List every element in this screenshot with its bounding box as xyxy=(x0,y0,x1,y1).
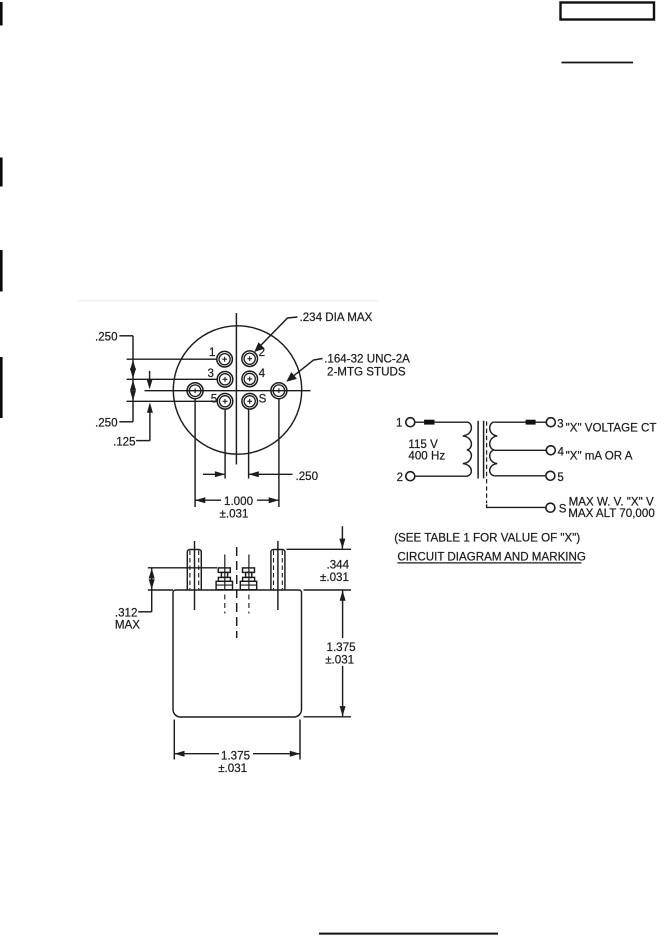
terminal 4 xyxy=(242,371,258,387)
case outline circle (top view) xyxy=(173,326,301,454)
arrowhead up row1 xyxy=(130,360,136,370)
case body (side view) xyxy=(173,590,302,717)
arrowhead left 1.375 bottom xyxy=(174,751,184,757)
connector .250 top xyxy=(119,335,133,337)
svg-text:.164-32 UNC-2A: .164-32 UNC-2A xyxy=(324,353,410,366)
svg-text:"X" mA OR A: "X" mA OR A xyxy=(566,449,633,462)
svg-text:±.031: ±.031 xyxy=(218,762,247,775)
leader .164-32 xyxy=(288,359,323,381)
solder terminal left (side view) xyxy=(216,555,232,614)
svg-text:±.031: ±.031 xyxy=(320,571,349,584)
arrowhead down .312 xyxy=(149,579,155,589)
header rule xyxy=(562,62,634,64)
svg-text:.250: .250 xyxy=(296,470,319,483)
svg-text:1.375: 1.375 xyxy=(221,749,250,762)
extension line stud left down xyxy=(194,400,196,508)
svg-text:.250: .250 xyxy=(95,330,118,343)
title box top-right xyxy=(561,3,655,20)
terminal 3 xyxy=(217,372,233,388)
arrowhead down at centerline xyxy=(147,379,153,389)
extension line stud top right xyxy=(287,548,352,550)
extension line row 1 xyxy=(127,358,217,360)
shield wire to S xyxy=(487,504,546,507)
mounting stud right (top view) xyxy=(271,383,287,399)
extension line cap top xyxy=(148,567,217,569)
extension line row 5 xyxy=(127,400,218,402)
stud left (side view) xyxy=(187,541,201,610)
arrowhead leader .164 xyxy=(286,372,297,382)
svg-text:3: 3 xyxy=(208,367,214,380)
dimension line .250 vertical xyxy=(132,336,134,422)
dimension line .250 bottom left part xyxy=(203,473,225,475)
svg-text:2-MTG STUDS: 2-MTG STUDS xyxy=(327,365,406,378)
polarity mark secondary xyxy=(526,420,536,425)
wire secondary to terminal 3 xyxy=(494,421,546,423)
arrowhead up row3b xyxy=(130,380,136,390)
extension line body bottom right xyxy=(304,716,352,718)
core line 2 xyxy=(483,421,485,479)
extension line body bottom leftend xyxy=(173,720,175,760)
svg-text:2: 2 xyxy=(397,471,403,484)
arrowhead up 1.375 xyxy=(340,591,346,601)
svg-text:4: 4 xyxy=(558,446,565,459)
core line 1 xyxy=(477,421,479,479)
svg-text:"X" VOLTAGE CT: "X" VOLTAGE CT xyxy=(566,422,657,435)
dimension line .125 lower xyxy=(149,411,151,441)
arrowhead right 1.375 bottom xyxy=(290,751,300,757)
title underline xyxy=(397,562,581,564)
extension line terminal S down xyxy=(248,410,250,479)
connector .312 xyxy=(138,611,152,613)
arrowhead down .344 xyxy=(339,539,345,549)
svg-text:.312: .312 xyxy=(115,606,138,619)
scan smudge xyxy=(78,300,378,302)
terminal S xyxy=(242,394,258,410)
svg-text:MAX: MAX xyxy=(115,619,140,632)
extension line body top right xyxy=(304,589,352,591)
leader .234 DIA MAX xyxy=(256,317,298,350)
change bar 4 xyxy=(0,357,3,418)
terminal 5 xyxy=(217,394,233,410)
arrowhead down row5 xyxy=(130,390,136,400)
arrowhead left 1.000 xyxy=(195,497,205,503)
dimension line .344 upper xyxy=(341,526,343,549)
extension line stud right down xyxy=(278,400,280,508)
extension line row 3 xyxy=(127,378,218,380)
terminal S circle (schematic) xyxy=(546,503,555,512)
dimension line 1.375 right lower xyxy=(342,666,344,716)
terminal 3 circle (schematic) xyxy=(546,418,555,427)
svg-text:S: S xyxy=(259,392,267,405)
connector .125 xyxy=(136,440,150,442)
dimension line 1.375 bottom left part xyxy=(174,753,219,755)
svg-text:1.375: 1.375 xyxy=(327,641,356,654)
terminal 5 circle (schematic) xyxy=(546,471,555,480)
svg-text:5: 5 xyxy=(557,471,563,484)
secondary winding xyxy=(490,422,498,476)
svg-text:1: 1 xyxy=(396,417,402,430)
mounting stud left (top view) xyxy=(187,383,203,399)
terminal 2 circle (schematic) xyxy=(406,472,415,481)
dimension line 1.000 left part xyxy=(195,499,221,501)
wire secondary to terminal 5 xyxy=(494,475,546,477)
svg-text:1.000: 1.000 xyxy=(224,495,253,508)
arrowhead up at row5 xyxy=(147,403,153,413)
terminal 2 xyxy=(242,351,258,367)
svg-text:3: 3 xyxy=(557,418,563,431)
svg-text:400 Hz: 400 Hz xyxy=(408,450,445,463)
arrowhead right at terminal5 xyxy=(215,471,225,477)
svg-text:.344: .344 xyxy=(327,559,350,572)
terminal 4 circle (schematic) xyxy=(546,446,555,455)
svg-text:MAX ALT 70,000: MAX ALT 70,000 xyxy=(568,507,655,520)
arrowhead up .312 xyxy=(149,568,155,578)
vertical centerline xyxy=(235,313,237,465)
dimension line 1.375 bottom right part xyxy=(253,753,300,755)
svg-text:.125: .125 xyxy=(113,435,136,448)
svg-text:S: S xyxy=(559,503,567,516)
dimension line 1.000 right part xyxy=(257,499,279,501)
main centerline (side view) xyxy=(236,547,238,638)
svg-text:.250: .250 xyxy=(95,416,118,429)
arrowhead leader .234 xyxy=(254,342,265,352)
extension line body top left xyxy=(148,589,173,591)
extension line terminal 5 down xyxy=(224,410,226,479)
dimension line .312 xyxy=(151,568,153,612)
terminal 1 circle (schematic) xyxy=(406,418,415,427)
svg-text:.234 DIA MAX: .234 DIA MAX xyxy=(300,311,373,324)
solder terminal right (side view) xyxy=(240,555,256,614)
footer rule xyxy=(319,933,498,935)
wire tap to terminal 4 xyxy=(494,449,546,451)
svg-text:5: 5 xyxy=(211,392,217,405)
horizontal centerline xyxy=(145,390,311,392)
svg-text:4: 4 xyxy=(259,367,266,380)
change bar top-left xyxy=(0,2,3,26)
arrowhead left at terminalS xyxy=(249,471,259,477)
shield dashed line xyxy=(486,421,488,503)
svg-text:2: 2 xyxy=(259,346,265,359)
change bar 2 xyxy=(0,158,3,187)
svg-text:CIRCUIT DIAGRAM AND MARKING: CIRCUIT DIAGRAM AND MARKING xyxy=(397,551,586,564)
extension line body bottom rightend xyxy=(299,720,301,760)
arrowhead down row3 xyxy=(130,368,136,378)
svg-text:1: 1 xyxy=(209,346,215,359)
svg-text:±.031: ±.031 xyxy=(220,507,249,520)
svg-text:(SEE TABLE 1 FOR VALUE OF "X"): (SEE TABLE 1 FOR VALUE OF "X") xyxy=(394,532,580,545)
wire terminal2 to primary xyxy=(415,475,467,477)
primary winding xyxy=(463,422,472,476)
connector .250 bottom xyxy=(119,421,133,423)
polarity mark primary xyxy=(424,420,434,425)
wire terminal1 to primary xyxy=(415,421,467,423)
arrowhead right 1.000 xyxy=(269,497,279,503)
change bar 3 xyxy=(0,250,3,292)
svg-text:±.031: ±.031 xyxy=(325,654,354,667)
arrowhead down 1.375 xyxy=(340,706,346,716)
terminal 1 xyxy=(217,351,233,367)
dimension line .125 upper xyxy=(149,371,151,380)
dimension line .250 bottom right part xyxy=(249,473,293,475)
dimension line 1.375 right upper xyxy=(342,591,344,639)
stud right (side view) xyxy=(271,541,285,610)
